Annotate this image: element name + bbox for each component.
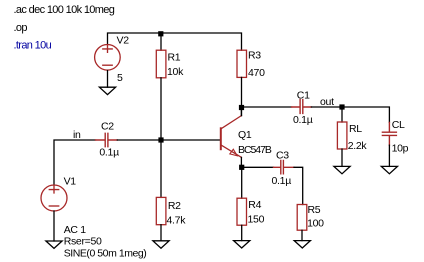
svg-text:5: 5 bbox=[117, 72, 123, 84]
svg-text:SINE(0 50m 1meg): SINE(0 50m 1meg) bbox=[64, 247, 147, 259]
svg-text:C2: C2 bbox=[101, 120, 114, 132]
ground under R5 bbox=[294, 241, 310, 248]
wire collector stub bbox=[240, 108, 242, 116]
capacitor CL bbox=[382, 122, 396, 145]
wire emitter stub bbox=[240, 157, 242, 167]
svg-text:.op: .op bbox=[14, 22, 28, 34]
wire CL bottom bbox=[388, 145, 390, 166]
node out/RL junction bbox=[339, 104, 344, 109]
svg-text:CL: CL bbox=[392, 119, 405, 131]
svg-text:R1: R1 bbox=[168, 51, 181, 63]
wire R4 bottom bbox=[241, 225, 243, 240]
voltage source V1 bbox=[41, 185, 67, 211]
wire R1 bottom to R2 top bbox=[160, 78, 162, 198]
wire emitter row right to R5 bbox=[294, 167, 303, 204]
resistor R4 bbox=[237, 198, 247, 225]
svg-text:2.2k: 2.2k bbox=[348, 140, 368, 152]
ground under R4 bbox=[234, 241, 250, 248]
svg-text:R3: R3 bbox=[248, 50, 261, 62]
svg-text:0.1µ: 0.1µ bbox=[99, 147, 119, 159]
svg-text:4.7k: 4.7k bbox=[167, 215, 187, 227]
wire RL top bbox=[341, 107, 343, 122]
ground under V1 bbox=[46, 241, 62, 248]
svg-text:RL: RL bbox=[349, 123, 362, 135]
voltage source V2 bbox=[95, 45, 121, 71]
svg-text:R2: R2 bbox=[168, 200, 181, 212]
node emitter junction bbox=[239, 165, 244, 170]
resistor R5 bbox=[297, 205, 307, 231]
node top-rail/R1 junction bbox=[158, 31, 163, 36]
svg-text:V1: V1 bbox=[64, 176, 77, 188]
svg-text:0.1µ: 0.1µ bbox=[293, 114, 313, 126]
transistor Q1 bbox=[221, 116, 242, 158]
svg-text:100: 100 bbox=[307, 218, 324, 230]
wire R2 bottom bbox=[160, 225, 162, 241]
resistor RL bbox=[337, 122, 347, 149]
wire R1 top bbox=[160, 33, 162, 50]
wire emitter down to R4 bbox=[241, 167, 243, 198]
svg-text:150: 150 bbox=[248, 213, 265, 225]
node out/collector junction bbox=[239, 105, 244, 110]
ground under RL bbox=[334, 166, 350, 173]
node in/base junction bbox=[158, 137, 163, 142]
svg-text:R5: R5 bbox=[308, 204, 321, 216]
svg-text:.ac dec 100 10k 10meg: .ac dec 100 10k 10meg bbox=[14, 4, 115, 16]
svg-text:10k: 10k bbox=[167, 66, 184, 78]
svg-text:C3: C3 bbox=[276, 150, 289, 162]
wire out row left bbox=[242, 106, 292, 108]
svg-text:AC 1: AC 1 bbox=[64, 224, 87, 236]
capacitor C2 bbox=[96, 133, 118, 146]
svg-text:C1: C1 bbox=[297, 89, 310, 101]
svg-text:R4: R4 bbox=[248, 199, 261, 211]
ground under CL bbox=[381, 166, 397, 173]
capacitor C3 bbox=[274, 160, 295, 173]
resistor R2 bbox=[156, 197, 166, 224]
wire out row right bbox=[311, 107, 389, 122]
resistor R1 bbox=[156, 50, 166, 78]
wire V2 bottom bbox=[107, 71, 109, 88]
wire R5 bottom bbox=[301, 230, 303, 240]
wire R3 bottom to collector bbox=[241, 77, 243, 115]
svg-text:470: 470 bbox=[248, 67, 265, 79]
wire RL bottom bbox=[341, 149, 343, 166]
svg-text:Rser=50: Rser=50 bbox=[64, 236, 102, 248]
wire in row right to base bbox=[117, 139, 220, 141]
svg-text:0.1µ: 0.1µ bbox=[272, 175, 292, 187]
wire emitter row left bbox=[242, 166, 274, 168]
svg-text:in: in bbox=[73, 129, 81, 141]
ground under V2 bbox=[99, 87, 115, 94]
ground under R2 bbox=[153, 241, 169, 248]
wire top rail V2 to R3 bbox=[108, 33, 242, 50]
svg-text:BC547B: BC547B bbox=[238, 144, 272, 156]
svg-text:Q1: Q1 bbox=[238, 129, 252, 141]
wire in row left bbox=[54, 140, 96, 185]
resistor R3 bbox=[237, 50, 247, 77]
svg-text:V2: V2 bbox=[117, 35, 130, 47]
svg-text:.tran 10u: .tran 10u bbox=[14, 40, 52, 52]
wire V1 bottom bbox=[53, 211, 55, 241]
svg-text:10p: 10p bbox=[392, 143, 409, 155]
capacitor C1 bbox=[292, 100, 312, 114]
